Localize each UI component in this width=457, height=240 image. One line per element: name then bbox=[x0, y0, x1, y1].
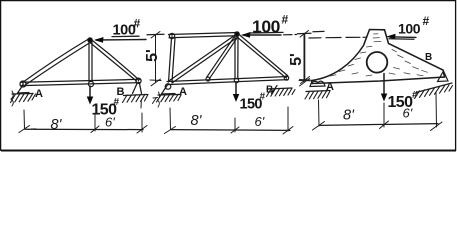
svg-text:#: # bbox=[282, 13, 289, 27]
svg-text:#: # bbox=[423, 14, 430, 28]
svg-text:5': 5' bbox=[288, 53, 305, 66]
svg-text:8': 8' bbox=[191, 113, 203, 129]
svg-text:#: # bbox=[412, 90, 418, 101]
svg-text:B: B bbox=[266, 85, 273, 96]
svg-text:6': 6' bbox=[105, 115, 115, 130]
svg-text:6': 6' bbox=[255, 114, 265, 129]
svg-text:100: 100 bbox=[252, 17, 281, 37]
svg-text:5': 5' bbox=[144, 49, 161, 62]
svg-text:100: 100 bbox=[398, 21, 421, 37]
svg-text:A: A bbox=[179, 86, 187, 98]
svg-text:A: A bbox=[35, 88, 43, 100]
svg-text:100: 100 bbox=[113, 23, 136, 39]
svg-text:#: # bbox=[134, 17, 141, 31]
svg-text:B: B bbox=[425, 52, 432, 63]
svg-text:A: A bbox=[326, 81, 334, 93]
svg-text:#: # bbox=[114, 97, 120, 108]
svg-text:6': 6' bbox=[403, 106, 413, 121]
svg-text:8': 8' bbox=[343, 108, 355, 124]
svg-text:B: B bbox=[117, 86, 125, 98]
svg-text:#: # bbox=[260, 92, 266, 103]
svg-text:8': 8' bbox=[51, 117, 63, 133]
